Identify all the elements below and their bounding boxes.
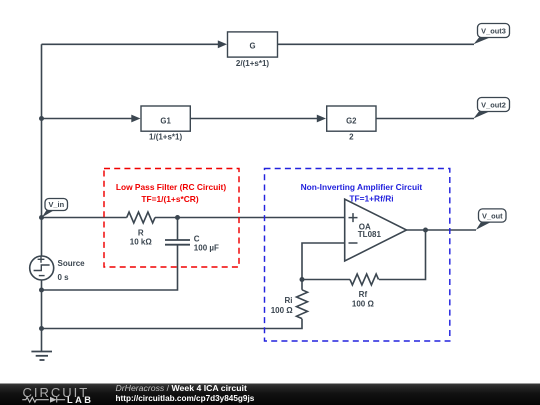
block G1 — [141, 106, 190, 131]
junction dot rail V_in — [39, 215, 44, 220]
svg-text:C: C — [194, 235, 200, 244]
block G2 — [327, 106, 376, 131]
svg-text:TL081: TL081 — [358, 230, 382, 239]
svg-text:TF=1+Rf/Ri: TF=1+Rf/Ri — [349, 193, 393, 203]
wire Rf to output junction — [379, 230, 426, 280]
wire left vertical rail — [41, 44, 43, 351]
svg-text:V_out2: V_out2 — [481, 100, 506, 109]
resistor Ri — [297, 290, 308, 319]
resistor R — [127, 212, 155, 223]
svg-text:100 Ω: 100 Ω — [352, 299, 375, 308]
svg-text:V_in: V_in — [48, 200, 64, 209]
junction dot feedback node — [300, 277, 305, 282]
block G — [228, 32, 278, 57]
junction dot rail row2 — [39, 116, 44, 121]
junction dot rail ground wire — [39, 326, 44, 331]
junction dot output node — [423, 228, 428, 233]
svg-text:Non-Inverting Amplifier Circui: Non-Inverting Amplifier Circuit — [301, 182, 423, 192]
op-amp OA TL081 — [345, 199, 407, 261]
svg-text:0 s: 0 s — [58, 273, 70, 282]
arrowhead into G1 — [131, 115, 140, 123]
wire op-amp output to V_out flag — [407, 229, 477, 231]
ground — [31, 352, 52, 361]
wire row2 rail to G1 block — [42, 118, 139, 120]
wire op-amp inverting input to feedback node — [302, 243, 345, 280]
resistor Rf — [350, 274, 379, 285]
wire G2 output to V_out2 flag — [376, 118, 474, 120]
node V_out flag — [476, 209, 506, 230]
wire capacitor top stub — [177, 218, 179, 241]
svg-text:V_out: V_out — [482, 211, 503, 220]
svg-text:G2: G2 — [346, 116, 357, 125]
wire feedback node to Rf — [302, 279, 350, 281]
svg-text:LAB: LAB — [67, 395, 93, 405]
source V1 (step voltage source) — [30, 256, 54, 280]
svg-text:1/(1+s*1): 1/(1+s*1) — [149, 133, 182, 142]
arrowhead into G — [218, 40, 227, 48]
svg-text:Source: Source — [58, 259, 86, 268]
wire G1 output to G2 input — [190, 118, 323, 120]
arrowhead into G2 — [317, 115, 326, 123]
svg-text:10 kΩ: 10 kΩ — [130, 237, 153, 246]
svg-text:TF=1/(1+s*CR): TF=1/(1+s*CR) — [141, 194, 198, 204]
junction dot capacitor top — [175, 215, 180, 220]
svg-text:http://circuitlab.com/cp7d3y84: http://circuitlab.com/cp7d3y845g9js — [116, 394, 255, 403]
wire feedback node to Ri — [301, 280, 303, 290]
node V_in flag — [42, 199, 68, 218]
svg-text:V_out3: V_out3 — [481, 26, 506, 35]
annotation box Low Pass Filter (red dashed) — [104, 169, 239, 268]
node V_out3 flag — [474, 24, 510, 45]
svg-text:2: 2 — [349, 133, 354, 142]
svg-text:G: G — [249, 42, 255, 51]
wire main input row V_in to op-amp + — [42, 217, 345, 219]
svg-text:R: R — [138, 228, 144, 237]
svg-text:100 Ω: 100 Ω — [271, 306, 294, 315]
svg-text:100 µF: 100 µF — [194, 244, 219, 253]
annotation box Non-Inverting Amplifier (blue dashed) — [265, 169, 450, 342]
junction dot rail capacitor bottom — [39, 288, 44, 293]
wire row1 rail to G block — [42, 43, 225, 45]
wire capacitor bottom to source rail — [42, 245, 178, 291]
wire G output to V_out3 flag — [278, 43, 475, 45]
svg-text:Low Pass Filter (RC Circuit): Low Pass Filter (RC Circuit) — [116, 182, 226, 192]
svg-text:Ri: Ri — [285, 296, 293, 305]
svg-text:Rf: Rf — [359, 290, 368, 299]
svg-text:2/(1+s*1): 2/(1+s*1) — [236, 59, 269, 68]
footer logo squiggle and diode — [22, 397, 65, 403]
svg-text:G1: G1 — [160, 116, 171, 125]
svg-text:DrHeracross / Week 4 ICA circu: DrHeracross / Week 4 ICA circuit — [116, 383, 247, 393]
capacitor C — [165, 240, 190, 245]
wire Ri bottom to ground rail — [42, 319, 303, 329]
node V_out2 flag — [474, 98, 510, 119]
